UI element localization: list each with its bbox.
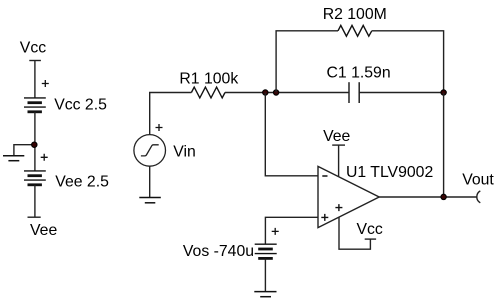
terminal bar Vee bbox=[28, 216, 41, 218]
junction dot inverting node bbox=[263, 90, 268, 95]
svg-text:C1 1.59n: C1 1.59n bbox=[327, 64, 391, 81]
resistor R2 bbox=[338, 25, 372, 36]
wire R2 to right vertical bbox=[372, 31, 444, 93]
svg-text:Vee: Vee bbox=[30, 222, 57, 239]
wire right vertical down to output bbox=[443, 93, 445, 198]
wire junction to ground (left) bbox=[14, 145, 34, 156]
plus sign Vin bbox=[156, 124, 163, 131]
svg-text:R2 100M: R2 100M bbox=[323, 6, 387, 23]
wire V3 to ground bbox=[264, 258, 266, 291]
ground symbol under Vos bbox=[254, 292, 276, 297]
svg-text:Vin: Vin bbox=[173, 144, 196, 161]
terminal arc Vout bbox=[477, 191, 481, 203]
ground symbol left bbox=[3, 156, 24, 161]
ground symbol under Vin bbox=[139, 198, 161, 203]
svg-text:Vcc: Vcc bbox=[20, 40, 46, 57]
svg-text:Vee: Vee bbox=[323, 128, 350, 145]
terminal bar Vee (op-amp) bbox=[332, 144, 345, 146]
svg-text:Vcc: Vcc bbox=[357, 221, 383, 238]
wire Vcc terminal to V1 top bbox=[34, 61, 36, 98]
wire feedback up-left to R2 bbox=[276, 31, 338, 93]
wire V1 bottom to V2 top bbox=[34, 112, 36, 171]
wire U1 positive supply to Vcc terminal bbox=[339, 217, 370, 249]
junction dot left supply midpoint bbox=[32, 142, 37, 147]
terminal bar Vcc (op-amp) bbox=[365, 238, 376, 240]
svg-text:Vos -740u: Vos -740u bbox=[183, 243, 254, 260]
capacitor C1 plates bbox=[349, 82, 359, 103]
wire Vin top to R1 bbox=[150, 93, 192, 135]
plus marker U1 inner bbox=[335, 204, 342, 211]
minus marker U1 bbox=[322, 175, 327, 177]
terminal bar Vcc bbox=[29, 60, 41, 62]
svg-text:Vcc 2.5: Vcc 2.5 bbox=[54, 97, 107, 114]
battery V1 Vcc 2.5 bbox=[24, 98, 46, 112]
resistor R1 bbox=[191, 87, 225, 98]
plus marker U1 input bbox=[321, 214, 328, 221]
source VS1 Vin (circle) bbox=[134, 135, 166, 167]
wire R1 to summing node bbox=[225, 92, 349, 94]
wire U1 negative supply stem bbox=[338, 145, 340, 177]
wire Vin bottom to ground bbox=[149, 166, 151, 197]
wire U1 output bbox=[379, 196, 477, 198]
wire C1 right plate to output vertical bbox=[359, 92, 443, 94]
wire V2 bottom to Vee terminal bbox=[34, 185, 36, 217]
svg-text:Vout: Vout bbox=[462, 171, 494, 188]
waveform inside Vin bbox=[141, 145, 159, 156]
plus sign V1 bbox=[42, 80, 49, 87]
svg-text:Vee 2.5: Vee 2.5 bbox=[55, 173, 109, 190]
wire inverting input from node bbox=[265, 93, 318, 176]
junction dot output node bbox=[441, 194, 446, 199]
battery V3 Vos bbox=[255, 244, 277, 258]
junction dot feedback node bbox=[273, 90, 278, 95]
svg-text:R1 100k: R1 100k bbox=[179, 71, 238, 88]
plus sign V2 bbox=[41, 154, 48, 161]
junction dot C1/R2 right bbox=[441, 90, 446, 95]
wire noninverting input from Vos bbox=[265, 217, 318, 244]
battery V2 Vee 2.5 bbox=[24, 171, 46, 185]
plus sign Vos bbox=[272, 228, 279, 235]
op-amp U1 triangle bbox=[318, 166, 379, 227]
svg-text:U1 TLV9002: U1 TLV9002 bbox=[346, 164, 433, 181]
